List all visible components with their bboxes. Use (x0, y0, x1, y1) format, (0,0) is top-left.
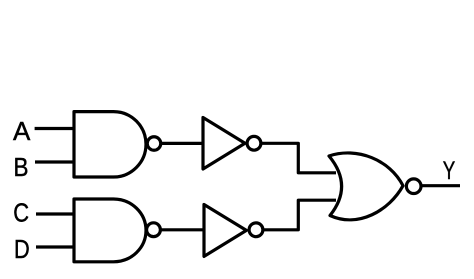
svg-text:D: D (14, 234, 30, 264)
wire input D (36, 245, 76, 248)
svg-text:B: B (14, 152, 29, 182)
inverter U4 output bubble (249, 223, 263, 237)
wire input C (36, 212, 76, 215)
NAND gate U1 body (74, 112, 146, 177)
NOR gate U5 output bubble (406, 179, 421, 194)
NAND gate U3 output bubble (147, 223, 161, 237)
NAND gate U1 output bubble (147, 137, 161, 151)
NAND gate U3 body (74, 199, 146, 262)
wire output Y (421, 184, 460, 187)
wire U4 to NOR bottom input (jog) (263, 200, 336, 230)
svg-text:Y: Y (443, 157, 456, 185)
inverter U4 triangle (204, 205, 246, 257)
NOR gate U5 body (329, 153, 403, 220)
svg-text:C: C (13, 198, 29, 228)
inverter U2 triangle (203, 118, 245, 170)
wire U3 to U4 (160, 228, 205, 231)
svg-text:A: A (13, 116, 31, 146)
wire input B (35, 160, 76, 163)
wire input A (35, 127, 76, 130)
wire U1 to U2 (161, 142, 204, 145)
wire U2 to NOR top input (jog) (261, 143, 336, 173)
inverter U2 output bubble (247, 136, 261, 150)
